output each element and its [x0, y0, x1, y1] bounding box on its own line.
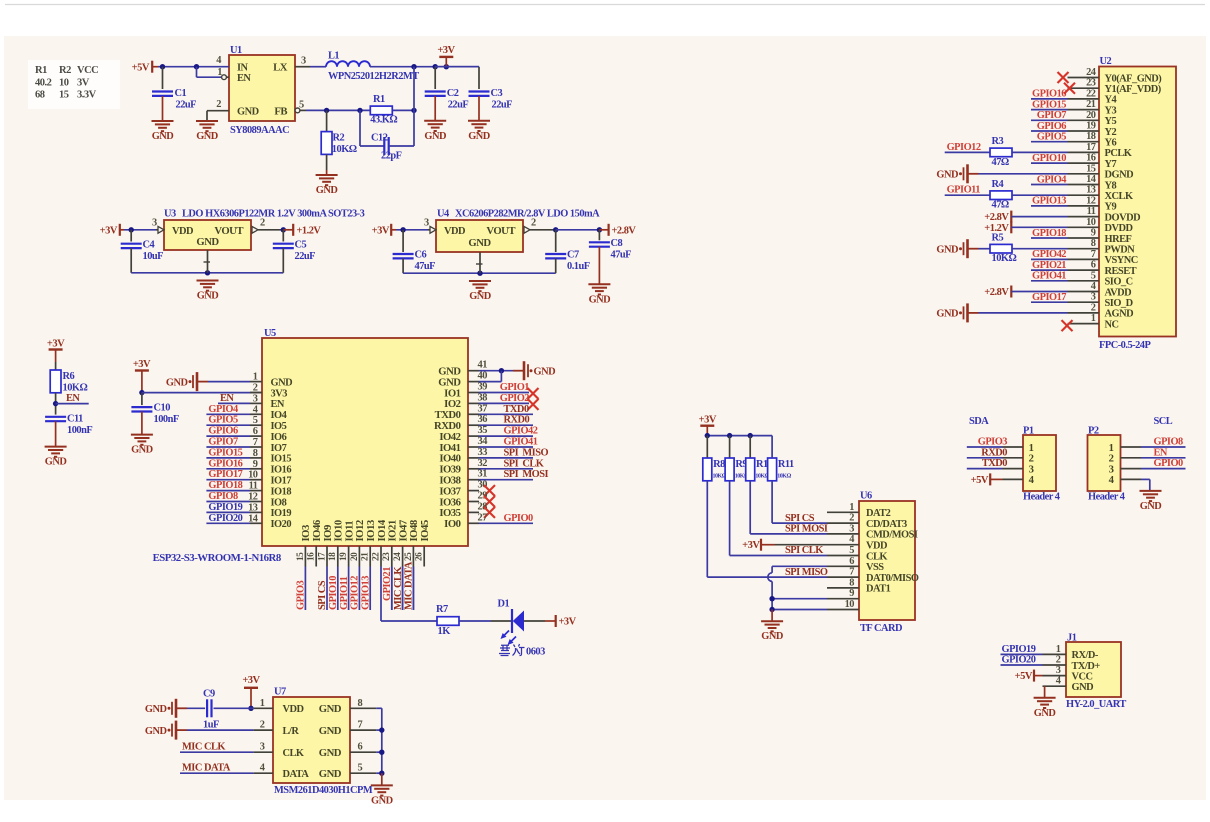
svg-text:IO45: IO45	[419, 520, 431, 541]
svg-text:31: 31	[478, 469, 488, 480]
svg-text:21: 21	[361, 552, 371, 561]
svg-text:GND: GND	[761, 631, 783, 642]
svg-text:39: 39	[478, 382, 488, 393]
svg-text:3: 3	[152, 218, 157, 229]
svg-text:VSYNC: VSYNC	[1105, 255, 1138, 266]
svg-text:GND: GND	[196, 236, 219, 248]
svg-text:SPI CLK: SPI CLK	[785, 545, 823, 556]
svg-text:24: 24	[393, 552, 403, 561]
svg-text:C11: C11	[67, 414, 83, 425]
svg-text:IO8: IO8	[271, 497, 287, 508]
svg-text:GND: GND	[152, 131, 174, 142]
svg-text:5: 5	[849, 545, 854, 556]
svg-text:R11: R11	[778, 459, 794, 470]
svg-text:GPIO20: GPIO20	[1002, 655, 1036, 666]
svg-text:SPI MOSI: SPI MOSI	[504, 469, 549, 480]
svg-text:13: 13	[1086, 185, 1096, 196]
svg-text:+3V: +3V	[742, 540, 760, 551]
svg-text:TF CARD: TF CARD	[860, 623, 902, 634]
svg-text:GPIO11: GPIO11	[339, 576, 350, 610]
svg-text:+3V: +3V	[699, 415, 717, 426]
svg-text:TX/D+: TX/D+	[1072, 661, 1101, 672]
svg-text:Y6: Y6	[1105, 138, 1117, 149]
svg-text:5: 5	[1091, 270, 1096, 281]
svg-text:SPI MOSI: SPI MOSI	[785, 524, 828, 535]
svg-text:C1: C1	[175, 88, 187, 99]
svg-text:GPIO41: GPIO41	[1032, 271, 1066, 282]
svg-text:GND: GND	[589, 294, 611, 305]
svg-text:RXD0: RXD0	[981, 447, 1007, 458]
svg-text:GPIO20: GPIO20	[208, 513, 242, 524]
svg-text:12: 12	[1086, 195, 1096, 206]
svg-text:GPIO10: GPIO10	[1032, 153, 1066, 164]
svg-text:R7: R7	[436, 604, 448, 615]
svg-text:ESP32-S3-WROOM-1-N16R8: ESP32-S3-WROOM-1-N16R8	[153, 552, 282, 564]
svg-text:14: 14	[1086, 174, 1096, 185]
svg-text:C10: C10	[154, 403, 171, 414]
svg-text:3V3: 3V3	[271, 388, 288, 399]
svg-text:3: 3	[1056, 665, 1061, 676]
svg-text:8: 8	[358, 698, 363, 709]
svg-text:EN: EN	[220, 393, 234, 404]
svg-text:43.KΩ: 43.KΩ	[370, 115, 397, 126]
svg-text:GPIO41: GPIO41	[504, 437, 538, 448]
svg-text:47uF: 47uF	[415, 261, 436, 272]
svg-text:8: 8	[849, 577, 854, 588]
svg-text:47Ω: 47Ω	[992, 200, 1009, 211]
svg-text:+5V: +5V	[971, 475, 989, 486]
svg-text:LX: LX	[273, 62, 288, 74]
svg-text:+3V: +3V	[372, 226, 390, 237]
svg-text:6: 6	[1091, 260, 1096, 271]
svg-text:7: 7	[358, 720, 363, 731]
svg-text:GPIO5: GPIO5	[1037, 132, 1067, 143]
svg-text:IN: IN	[237, 63, 249, 74]
svg-text:IO5: IO5	[271, 421, 287, 432]
svg-text:GND: GND	[271, 377, 293, 388]
svg-text:24: 24	[1086, 67, 1096, 78]
svg-text:3.3V: 3.3V	[77, 90, 97, 101]
svg-text:GPIO15: GPIO15	[208, 447, 242, 458]
svg-text:+2.8V: +2.8V	[612, 226, 637, 237]
svg-text:9: 9	[1091, 228, 1096, 239]
svg-text:GPIO42: GPIO42	[504, 426, 538, 437]
svg-text:DAT0/MISO: DAT0/MISO	[866, 573, 919, 584]
svg-text:R5: R5	[992, 232, 1004, 243]
svg-text:EN: EN	[1154, 447, 1168, 458]
svg-text:15: 15	[296, 552, 306, 561]
svg-text:VSS: VSS	[866, 562, 884, 573]
svg-text:Y2: Y2	[1105, 127, 1117, 138]
svg-text:R1: R1	[35, 65, 47, 76]
svg-text:VDD: VDD	[866, 541, 887, 552]
svg-text:36: 36	[478, 414, 488, 425]
svg-text:20: 20	[350, 552, 360, 561]
svg-text:10: 10	[845, 599, 855, 610]
svg-text:18: 18	[1086, 131, 1096, 142]
svg-text:GPIO5: GPIO5	[208, 415, 238, 426]
svg-text:GPIO7: GPIO7	[1037, 110, 1067, 121]
svg-text:GND: GND	[371, 795, 393, 806]
svg-text:MIC CLK: MIC CLK	[393, 567, 404, 610]
svg-text:GND: GND	[166, 377, 188, 388]
svg-text:21: 21	[1086, 99, 1096, 110]
svg-text:GND: GND	[424, 131, 446, 142]
svg-text:1K: 1K	[438, 626, 451, 637]
svg-text:9: 9	[849, 588, 854, 599]
svg-text:GPIO8: GPIO8	[1154, 437, 1184, 448]
svg-text:C6: C6	[415, 250, 427, 261]
svg-text:GPIO0: GPIO0	[504, 513, 534, 524]
svg-text:41: 41	[478, 360, 488, 371]
svg-text:28: 28	[478, 501, 488, 512]
svg-text:XCLK: XCLK	[1105, 191, 1133, 202]
svg-text:SCL: SCL	[1154, 416, 1173, 427]
svg-text:GPIO42: GPIO42	[1032, 249, 1066, 260]
svg-text:R6: R6	[63, 371, 75, 382]
svg-text:R2: R2	[333, 133, 345, 144]
svg-text:20: 20	[1086, 110, 1096, 121]
svg-text:+3V: +3V	[559, 617, 577, 628]
svg-text:GPIO11: GPIO11	[947, 185, 981, 196]
svg-text:SPI CS: SPI CS	[317, 580, 328, 610]
svg-text:6: 6	[358, 742, 363, 753]
svg-text:10: 10	[1086, 217, 1096, 228]
svg-text:GPIO0: GPIO0	[1154, 458, 1184, 469]
svg-text:GND: GND	[534, 367, 556, 378]
svg-text:+5V: +5V	[1015, 671, 1033, 682]
svg-text:22pF: 22pF	[381, 151, 402, 162]
svg-text:DAT2: DAT2	[866, 508, 891, 519]
svg-text:Y4: Y4	[1105, 95, 1117, 106]
svg-text:R8: R8	[713, 459, 725, 470]
svg-text:GPIO15: GPIO15	[1032, 99, 1066, 110]
svg-text:IO19: IO19	[271, 508, 292, 519]
svg-text:IO6: IO6	[271, 432, 287, 443]
svg-text:C8: C8	[611, 238, 623, 249]
svg-text:Y5: Y5	[1105, 116, 1117, 127]
svg-text:VCC: VCC	[1072, 671, 1093, 682]
svg-text:11: 11	[1087, 206, 1096, 217]
svg-text:2: 2	[531, 218, 536, 229]
svg-text:16: 16	[307, 552, 317, 561]
svg-text:22: 22	[371, 552, 381, 561]
svg-text:2: 2	[260, 720, 265, 731]
svg-text:18: 18	[328, 552, 338, 561]
svg-text:GND: GND	[1072, 682, 1094, 693]
svg-text:GND: GND	[468, 237, 491, 249]
svg-text:+3V: +3V	[100, 226, 118, 237]
svg-text:2: 2	[1056, 655, 1061, 666]
svg-text:47uF: 47uF	[611, 250, 632, 261]
svg-text:GND: GND	[936, 245, 958, 256]
svg-text:+3V: +3V	[437, 45, 455, 56]
svg-text:47Ω: 47Ω	[992, 157, 1009, 168]
svg-text:U7: U7	[274, 687, 286, 698]
svg-text:L/R: L/R	[283, 726, 300, 737]
svg-text:38: 38	[478, 392, 488, 403]
svg-text:35: 35	[478, 425, 488, 436]
svg-text:DATA: DATA	[283, 769, 310, 780]
svg-text:CMD/MOSI: CMD/MOSI	[866, 530, 918, 541]
svg-text:IO20: IO20	[271, 519, 292, 530]
svg-text:MSM261D4030H1CPM: MSM261D4030H1CPM	[274, 785, 373, 796]
svg-text:+2.8V: +2.8V	[984, 287, 1009, 298]
svg-text:SIO_C: SIO_C	[1105, 277, 1133, 288]
svg-text:26: 26	[415, 552, 425, 561]
svg-text:GPIO16: GPIO16	[208, 458, 242, 469]
svg-text:C7: C7	[567, 250, 579, 261]
svg-text:CLK: CLK	[283, 748, 304, 759]
svg-text:GPIO13: GPIO13	[360, 576, 371, 610]
svg-text:GND: GND	[197, 291, 219, 302]
svg-text:GND: GND	[468, 131, 490, 142]
svg-text:GND: GND	[936, 309, 958, 320]
svg-text:WPN252012H2R2MT: WPN252012H2R2MT	[328, 71, 419, 82]
svg-text:15: 15	[59, 90, 69, 101]
svg-text:4: 4	[1091, 281, 1096, 292]
svg-text:1: 1	[849, 502, 854, 513]
svg-text:SPI MISO: SPI MISO	[504, 447, 549, 458]
svg-text:R4: R4	[992, 179, 1004, 190]
svg-text:2: 2	[1091, 302, 1096, 313]
svg-text:U6: U6	[860, 491, 872, 502]
svg-text:22: 22	[1086, 88, 1096, 99]
svg-text:U2: U2	[1100, 56, 1112, 67]
svg-text:IO7: IO7	[271, 443, 287, 454]
svg-text:RXD0: RXD0	[504, 415, 530, 426]
svg-text:10KΩ: 10KΩ	[777, 474, 791, 480]
svg-text:GND: GND	[1140, 501, 1162, 512]
svg-text:VOUT: VOUT	[486, 225, 515, 237]
svg-text:SPI MISO: SPI MISO	[785, 567, 828, 578]
svg-text:RX/D-: RX/D-	[1072, 650, 1099, 661]
svg-text:GND: GND	[145, 726, 167, 737]
svg-text:GPIO18: GPIO18	[208, 480, 242, 491]
svg-text:GPIO19: GPIO19	[208, 502, 242, 513]
svg-text:PWDN: PWDN	[1105, 245, 1136, 256]
svg-text:SPI CS: SPI CS	[785, 513, 815, 524]
svg-text:CD/DAT3: CD/DAT3	[866, 519, 907, 530]
svg-text:R3: R3	[992, 136, 1004, 147]
svg-text:IO18: IO18	[271, 486, 292, 497]
svg-text:DAT1: DAT1	[866, 584, 891, 595]
svg-text:Y7: Y7	[1105, 159, 1117, 170]
svg-text:GND: GND	[319, 725, 342, 737]
svg-text:IO0: IO0	[444, 518, 460, 530]
svg-text:GPIO19: GPIO19	[1002, 644, 1036, 655]
svg-text:22uF: 22uF	[295, 251, 316, 262]
svg-text:IO17: IO17	[271, 476, 292, 487]
svg-text:40: 40	[478, 371, 488, 382]
svg-text:27: 27	[478, 512, 488, 523]
svg-text:3: 3	[1091, 292, 1096, 303]
svg-text:1: 1	[1091, 313, 1096, 324]
svg-text:D1: D1	[498, 599, 510, 610]
svg-text:PCLK: PCLK	[1105, 148, 1132, 159]
svg-text:GPIO3: GPIO3	[978, 437, 1008, 448]
svg-text:17: 17	[1086, 142, 1096, 153]
svg-text:R1: R1	[373, 94, 385, 105]
svg-text:R2: R2	[59, 65, 71, 76]
svg-text:2: 2	[260, 218, 265, 229]
svg-text:+2.8V: +2.8V	[984, 212, 1009, 223]
svg-text:10KΩ: 10KΩ	[992, 253, 1017, 264]
svg-text:MIC DATA: MIC DATA	[404, 561, 415, 610]
svg-text:GPIO3: GPIO3	[296, 580, 307, 610]
svg-text:GPIO21: GPIO21	[382, 567, 393, 601]
svg-text:Header 4: Header 4	[1023, 492, 1060, 503]
svg-text:C12: C12	[371, 133, 388, 144]
svg-text:HREF: HREF	[1105, 234, 1132, 245]
svg-text:23: 23	[1086, 78, 1096, 89]
svg-text:GND: GND	[319, 747, 342, 759]
svg-text:GPIO1: GPIO1	[500, 382, 530, 393]
svg-text:3: 3	[849, 523, 854, 534]
svg-text:+5V: +5V	[132, 63, 150, 74]
svg-text:MIC CLK: MIC CLK	[182, 742, 225, 753]
svg-text:3: 3	[301, 56, 306, 67]
svg-text:TXD0: TXD0	[982, 458, 1007, 469]
svg-text:GPIO7: GPIO7	[208, 437, 238, 448]
svg-text:16: 16	[1086, 153, 1096, 164]
svg-text:GPIO17: GPIO17	[208, 469, 242, 480]
svg-text:GPIO12: GPIO12	[947, 142, 981, 153]
svg-text:MIC DATA: MIC DATA	[182, 763, 231, 774]
svg-text:FB: FB	[274, 106, 287, 118]
svg-text:4: 4	[849, 534, 854, 545]
svg-text:AGND: AGND	[1105, 309, 1134, 320]
svg-text:GPIO6: GPIO6	[1037, 121, 1067, 132]
svg-text:VDD: VDD	[283, 704, 304, 715]
svg-text:3: 3	[260, 742, 265, 753]
svg-text:NC: NC	[1105, 319, 1119, 330]
svg-text:GPIO17: GPIO17	[1032, 292, 1066, 303]
svg-text:GND: GND	[196, 131, 218, 142]
svg-text:68: 68	[35, 90, 45, 101]
svg-text:100nF: 100nF	[67, 425, 92, 436]
svg-text:GPIO18: GPIO18	[1032, 228, 1066, 239]
svg-text:L1: L1	[328, 51, 339, 62]
svg-text:IO16: IO16	[271, 465, 292, 476]
svg-text:3V: 3V	[77, 78, 90, 89]
svg-text:U4 XC6206P282MR/2.8V LDO 150: U4 XC6206P282MR/2.8V LDO 150mA	[437, 209, 600, 220]
svg-text:15: 15	[1086, 163, 1096, 174]
svg-text:22uF: 22uF	[492, 100, 513, 111]
svg-text:4: 4	[1056, 676, 1061, 687]
svg-text:+3V: +3V	[133, 359, 151, 370]
svg-text:HY-2.0_UART: HY-2.0_UART	[1066, 699, 1126, 710]
svg-text:SDA: SDA	[969, 416, 989, 427]
svg-text:33: 33	[478, 447, 488, 458]
svg-text:3: 3	[424, 218, 429, 229]
svg-text:5: 5	[358, 763, 363, 774]
svg-text:+3V: +3V	[47, 339, 65, 350]
svg-text:10KΩ: 10KΩ	[63, 383, 88, 394]
svg-text:19: 19	[339, 552, 349, 561]
svg-text:Y1(AF_VDD): Y1(AF_VDD)	[1105, 84, 1161, 95]
svg-text:TXD0: TXD0	[504, 404, 529, 415]
svg-text:0603: 0603	[526, 647, 545, 658]
svg-text:VDD: VDD	[172, 226, 193, 237]
svg-text:6: 6	[849, 556, 854, 567]
svg-text:VOUT: VOUT	[214, 225, 243, 237]
svg-text:GND: GND	[45, 457, 67, 468]
svg-text:DVDD: DVDD	[1105, 223, 1133, 234]
svg-text:DOVDD: DOVDD	[1105, 212, 1141, 223]
svg-text:IO15: IO15	[271, 454, 292, 465]
svg-text:2: 2	[849, 513, 854, 524]
svg-text:Header 4: Header 4	[1088, 492, 1125, 503]
svg-text:GND: GND	[237, 107, 259, 118]
svg-text:GND: GND	[319, 703, 342, 715]
svg-text:GPIO10: GPIO10	[328, 576, 339, 610]
svg-text:100nF: 100nF	[154, 414, 179, 425]
svg-text:GPIO13: GPIO13	[1032, 196, 1066, 207]
svg-text:GND: GND	[131, 445, 153, 456]
svg-text:C5: C5	[295, 240, 307, 251]
svg-text:34: 34	[478, 436, 488, 447]
svg-text:1: 1	[1056, 644, 1061, 655]
svg-text:IO4: IO4	[271, 410, 287, 421]
svg-text:Y8: Y8	[1105, 180, 1117, 191]
svg-text:1: 1	[260, 698, 265, 709]
svg-text:37: 37	[478, 403, 488, 414]
svg-text:0.1uF: 0.1uF	[567, 261, 590, 272]
svg-text:4: 4	[260, 763, 265, 774]
svg-text:C3: C3	[491, 88, 503, 99]
svg-text:GPIO21: GPIO21	[1032, 260, 1066, 271]
svg-text:2: 2	[216, 99, 221, 110]
svg-text:+3V: +3V	[242, 675, 260, 686]
svg-text:23: 23	[382, 552, 392, 561]
svg-text:30: 30	[478, 480, 488, 491]
svg-text:VCC: VCC	[77, 65, 98, 76]
svg-text:EN: EN	[66, 393, 80, 404]
svg-text:10KΩ: 10KΩ	[332, 144, 357, 155]
svg-text:GND: GND	[316, 185, 338, 196]
svg-text:SY8089AAAC: SY8089AAAC	[230, 125, 289, 136]
svg-text:1uF: 1uF	[203, 720, 219, 731]
svg-text:Y3: Y3	[1105, 105, 1117, 116]
svg-text:EN: EN	[271, 399, 285, 410]
svg-text:25: 25	[404, 552, 414, 561]
svg-text:C2: C2	[447, 88, 459, 99]
svg-text:CLK: CLK	[866, 551, 887, 562]
svg-text:17: 17	[317, 552, 327, 561]
svg-text:DGND: DGND	[1105, 170, 1134, 181]
svg-text:32: 32	[478, 458, 488, 469]
svg-text:29: 29	[478, 491, 488, 502]
svg-text:22uF: 22uF	[176, 100, 197, 111]
svg-text:GND: GND	[319, 768, 342, 780]
svg-text:VDD: VDD	[444, 226, 465, 237]
svg-text:GPIO4: GPIO4	[208, 404, 238, 415]
svg-text:Y0(AF_GND): Y0(AF_GND)	[1105, 73, 1162, 84]
svg-text:Y9: Y9	[1105, 202, 1117, 213]
svg-text:AVDD: AVDD	[1105, 287, 1132, 298]
svg-text:RESET: RESET	[1105, 266, 1137, 277]
svg-text:GND: GND	[936, 170, 958, 181]
svg-text:GND: GND	[145, 704, 167, 715]
svg-text:GPIO16: GPIO16	[1032, 89, 1066, 100]
svg-text:22uF: 22uF	[448, 100, 469, 111]
svg-text:GPIO12: GPIO12	[350, 576, 361, 610]
svg-text:GPIO8: GPIO8	[208, 491, 238, 502]
svg-text:19: 19	[1086, 121, 1096, 132]
svg-text:7: 7	[1091, 249, 1096, 260]
svg-text:40.2: 40.2	[35, 78, 52, 89]
